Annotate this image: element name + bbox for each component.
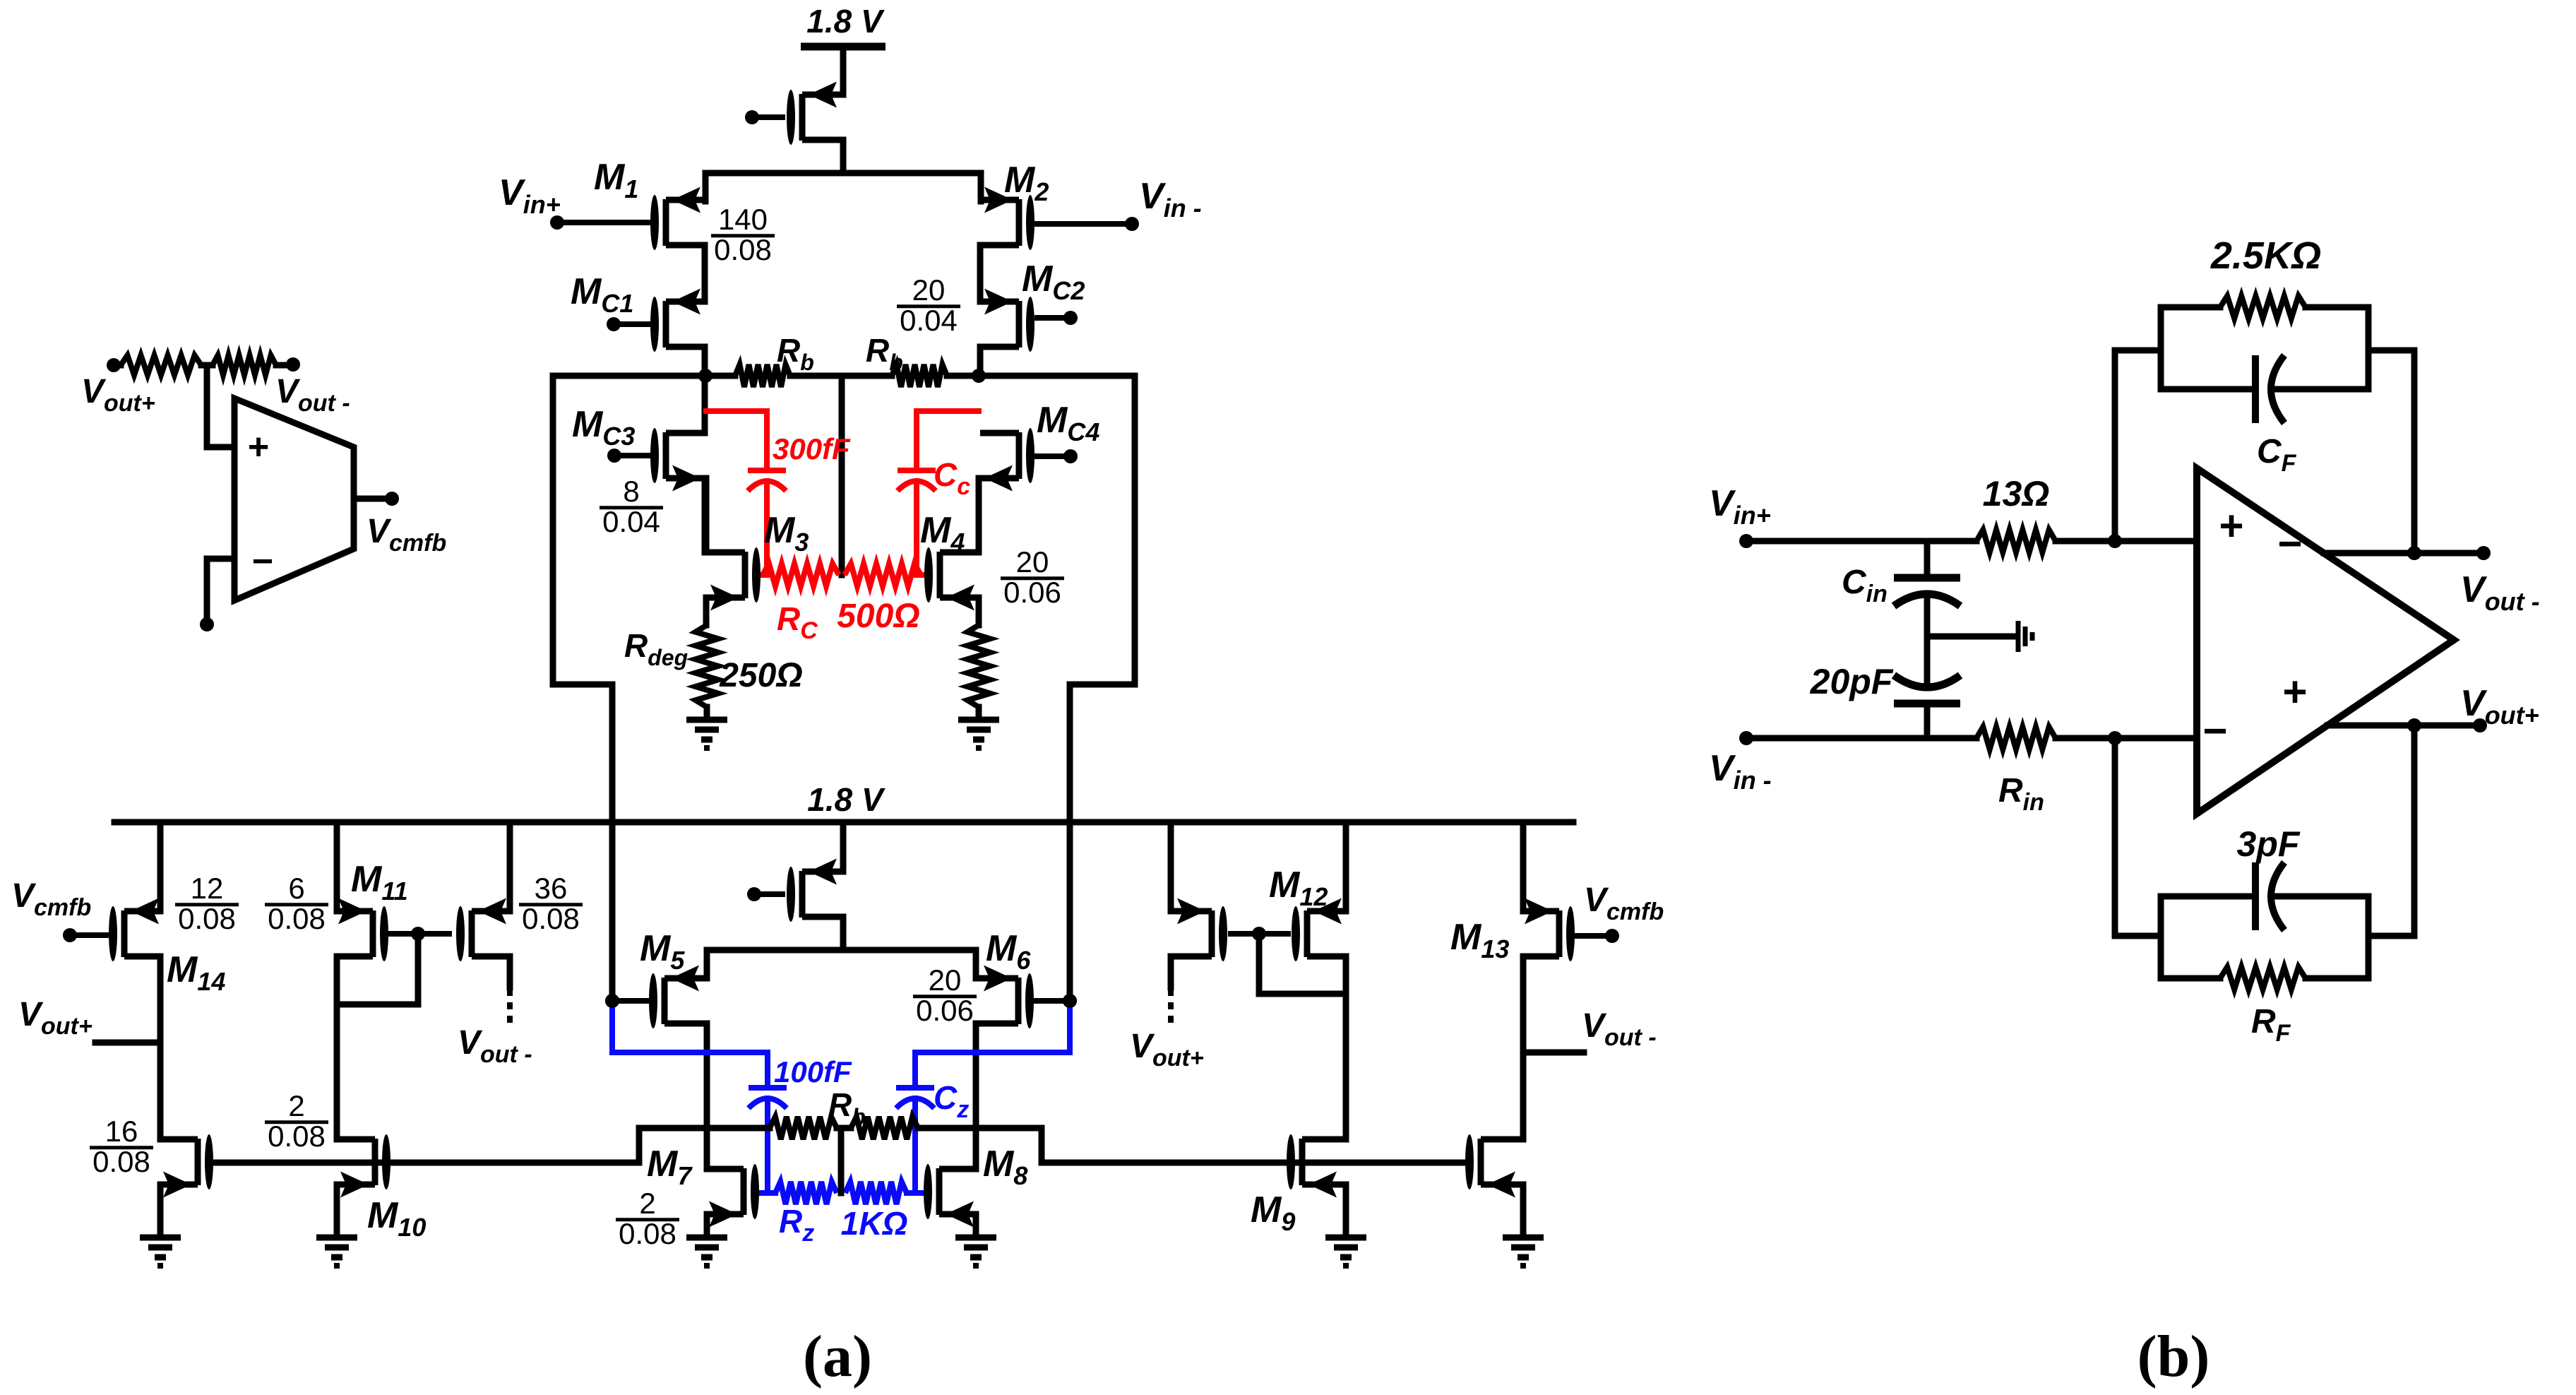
transistor current source (top) xyxy=(787,82,843,146)
label Vout- (M13) xyxy=(1582,1007,1657,1051)
svg-text:13Ω: 13Ω xyxy=(1983,474,2050,514)
label Vout- (b) xyxy=(2460,569,2540,616)
wire xyxy=(840,917,847,950)
svg-text:100fF: 100fF xyxy=(774,1055,852,1088)
wire xyxy=(702,347,708,433)
wire Vout- stub xyxy=(1523,1050,1584,1056)
gate dot MC3 xyxy=(607,449,650,463)
label M12 xyxy=(1269,865,1328,911)
wire xyxy=(334,1185,340,1237)
label Vout+ (b) xyxy=(2460,683,2539,730)
transistor MC1 xyxy=(650,289,705,352)
ground (M7) xyxy=(686,1237,727,1266)
transistor M4 xyxy=(924,547,979,611)
label Rz xyxy=(779,1203,814,1247)
svg-text:0.08: 0.08 xyxy=(522,902,580,935)
resistor Rb (bottom left) xyxy=(770,1117,837,1139)
capacitor 20pF xyxy=(1894,636,1960,738)
svg-text:0.08: 0.08 xyxy=(93,1145,150,1178)
gate dot MC2 xyxy=(1034,311,1078,325)
label M13 xyxy=(1450,917,1509,963)
svg-text:8: 8 xyxy=(623,475,639,508)
svg-text:3pF: 3pF xyxy=(2237,824,2301,864)
svg-text:20: 20 xyxy=(1016,545,1049,578)
svg-text:0.08: 0.08 xyxy=(714,233,772,266)
resistor 2.5Kohm xyxy=(2161,296,2368,319)
wire xyxy=(1343,1185,1349,1237)
svg-text:0.04: 0.04 xyxy=(900,304,958,337)
wire xyxy=(702,478,708,552)
label 2/0.08 (M7) xyxy=(616,1187,679,1250)
gate Vcmfb terminal (M14) xyxy=(63,928,109,942)
wire top bus xyxy=(705,173,981,201)
label 300fF xyxy=(773,432,851,465)
transistor M9 xyxy=(1287,1134,1346,1198)
svg-text:20pF: 20pF xyxy=(1810,662,1894,701)
wire gate bus right xyxy=(976,1128,1469,1163)
svg-text:0.08: 0.08 xyxy=(619,1217,676,1250)
wire left box xyxy=(553,376,705,1001)
label Vout+ (M14) xyxy=(18,996,93,1040)
label 6/0.08 xyxy=(265,872,328,935)
resistor RF xyxy=(2161,967,2368,990)
terminal dot xyxy=(2476,546,2491,560)
ground (M10) xyxy=(316,1237,357,1266)
svg-text:0.08: 0.08 xyxy=(268,902,326,935)
transistor M11b (36/0.08) xyxy=(456,898,509,962)
svg-text:0.08: 0.08 xyxy=(178,902,236,935)
resistor Rdeg (right) xyxy=(967,625,990,707)
gate terminal dot xyxy=(745,110,785,124)
power supply 1.8 V rail (top) xyxy=(801,3,885,47)
wire xyxy=(1924,541,1931,574)
resistor cmfb left xyxy=(121,355,201,375)
label Rdeg xyxy=(624,627,688,670)
label MC4 xyxy=(1037,400,1099,446)
wire loop right col b xyxy=(2366,896,2372,978)
svg-text:1.8 V: 1.8 V xyxy=(807,781,885,818)
label (b) xyxy=(2137,1324,2210,1389)
output wire Vcmfb xyxy=(354,496,389,502)
label (a) xyxy=(803,1324,872,1389)
wire xyxy=(976,598,982,625)
terminal dot Vout+ (cmfb) xyxy=(107,358,121,372)
label MC1 xyxy=(571,271,633,318)
wire xyxy=(973,1214,979,1237)
input Vin+ terminal xyxy=(550,215,650,230)
ground (cin mid) xyxy=(2018,621,2032,652)
resistor cmfb right xyxy=(213,355,276,375)
input terminal Vin- (b) xyxy=(1739,731,1976,745)
wire loop right col xyxy=(2366,307,2372,389)
gate Vcmfb terminal (M13) xyxy=(1570,929,1619,943)
gate node M11 xyxy=(383,927,452,941)
node M5 gate xyxy=(605,994,649,1008)
transistor M16 (16/0.08) xyxy=(160,1134,213,1198)
svg-text:(b): (b) xyxy=(2137,1324,2210,1389)
node dot (M5 gate over blue) xyxy=(605,994,619,1008)
input terminal Vin+ (b) xyxy=(1739,534,1976,548)
op-amp cmfb (trapezoid) xyxy=(234,398,354,600)
transistor M11 xyxy=(337,898,388,962)
wire diode M12 xyxy=(1259,934,1346,994)
wire xyxy=(114,362,121,369)
resistor 1Kohm (blue) xyxy=(845,1182,922,1204)
label M10 xyxy=(367,1195,426,1242)
svg-text:+: + xyxy=(248,427,269,468)
label Vcmfb (right) xyxy=(1584,881,1664,925)
wire Vout+ (b) xyxy=(2327,723,2480,729)
label 12/0.08 xyxy=(175,872,239,935)
node A (left cascode node) xyxy=(698,369,712,383)
wire xyxy=(507,822,513,911)
wire xyxy=(840,47,847,95)
wire xyxy=(704,1214,710,1237)
label 20pF xyxy=(1810,662,1894,701)
wire xyxy=(2115,350,2161,541)
label 250 xyxy=(719,657,803,694)
wire blue right xyxy=(915,1001,1070,1085)
label Vin- (b) xyxy=(1709,748,1772,795)
resistor Rdeg (left) 250ohm xyxy=(696,625,718,707)
label 1Kohm xyxy=(841,1205,908,1242)
wire xyxy=(1520,822,1527,911)
wire xyxy=(1343,956,1349,1139)
terminal dot Vcmfb xyxy=(385,492,399,506)
wire xyxy=(1520,1185,1527,1237)
wire xyxy=(840,822,847,872)
wire dashed Vout+ xyxy=(1168,989,1174,1024)
terminal dot Vout- (cmfb) xyxy=(286,357,300,372)
label M11 xyxy=(351,859,408,906)
wire ground stub xyxy=(1927,634,2017,640)
svg-text:36: 36 xyxy=(535,872,568,905)
svg-text:(a): (a) xyxy=(803,1324,872,1389)
wire xyxy=(840,47,847,95)
terminal dot (minus input) xyxy=(200,617,214,631)
svg-text:0.04: 0.04 xyxy=(602,505,660,538)
capacitor Cz (blue) xyxy=(896,1088,934,1193)
gate node M12 xyxy=(1228,927,1291,941)
node plus input xyxy=(2108,534,2122,548)
label Vcmfb xyxy=(366,513,446,557)
svg-text:2: 2 xyxy=(639,1187,655,1220)
label M4 xyxy=(920,510,965,557)
wire xyxy=(157,956,164,1139)
capacitor 3pF xyxy=(2161,862,2368,930)
label Vin+ xyxy=(499,172,561,219)
resistor 13ohm xyxy=(1976,530,2056,552)
label 500 xyxy=(837,598,920,635)
wire xyxy=(973,1023,979,1169)
ground (M9) xyxy=(1325,1237,1366,1266)
svg-text:−: − xyxy=(252,541,273,582)
transistor M8 xyxy=(924,1164,978,1228)
wire Vout- (b) xyxy=(2324,550,2483,557)
label Vout+ (M12a) xyxy=(1130,1028,1204,1072)
wire bottom Rb row xyxy=(707,1125,976,1132)
wire xyxy=(1343,822,1349,911)
wire xyxy=(976,707,982,720)
wire gate bus left xyxy=(210,1128,707,1163)
ground (left Rdeg) xyxy=(686,720,727,748)
input Vin- terminal xyxy=(1034,217,1139,231)
wire M5-M6 top bus xyxy=(707,950,976,978)
svg-text:−: − xyxy=(2202,707,2227,754)
label CF xyxy=(2257,433,2297,477)
wire xyxy=(507,956,513,987)
label 100fF xyxy=(774,1055,852,1088)
svg-text:250Ω: 250Ω xyxy=(719,657,803,694)
svg-text:−: − xyxy=(2277,520,2302,567)
label Cc xyxy=(934,456,970,500)
capacitor Cc (red) xyxy=(898,411,979,575)
gate dot MC4 xyxy=(1034,449,1078,463)
capacitor 100fF (blue) xyxy=(749,1088,787,1193)
transistor M1 xyxy=(650,187,705,251)
svg-text:+: + xyxy=(2219,502,2243,550)
resistor Rz (blue) xyxy=(761,1182,837,1204)
wire xyxy=(976,478,982,552)
label M1 xyxy=(594,157,638,203)
label Rb bottom xyxy=(828,1086,866,1129)
wire xyxy=(1168,956,1174,987)
ground (M16) xyxy=(140,1237,181,1266)
label Cin xyxy=(1842,564,1888,607)
svg-text:12: 12 xyxy=(191,872,224,905)
gate terminal dot xyxy=(747,887,785,901)
wire plus input xyxy=(207,365,234,447)
svg-text:0.06: 0.06 xyxy=(1003,576,1061,609)
wire xyxy=(1168,822,1174,911)
svg-text:1.8 V: 1.8 V xyxy=(806,3,885,40)
label Cz xyxy=(934,1079,969,1123)
label 3pF xyxy=(2237,824,2301,864)
resistor Rb (right) xyxy=(892,364,947,387)
wire xyxy=(2368,350,2414,553)
capacitor Cin xyxy=(1894,578,1960,636)
gate dot MC1 xyxy=(607,317,650,331)
wire xyxy=(157,822,164,911)
label M8 xyxy=(983,1144,1027,1190)
wire xyxy=(334,822,340,911)
transistor M12 xyxy=(1292,898,1346,962)
label Rin xyxy=(1998,772,2044,816)
label M5 xyxy=(640,928,685,975)
op-amp U1 (triangle) xyxy=(2197,468,2454,814)
label 8/0.04 xyxy=(600,475,663,538)
wire xyxy=(2056,538,2197,545)
label Rb left xyxy=(777,332,814,375)
svg-text:0.08: 0.08 xyxy=(268,1120,326,1153)
svg-text:2: 2 xyxy=(288,1089,304,1122)
resistor 500ohm (red) xyxy=(845,564,926,586)
svg-text:500Ω: 500Ω xyxy=(837,598,920,635)
wire xyxy=(704,707,710,720)
transistor M6 xyxy=(976,966,1034,1029)
label Vout- (cmfb) xyxy=(275,373,350,417)
transistor MC3 xyxy=(650,428,705,492)
wire xyxy=(334,956,340,1139)
wire xyxy=(703,598,710,625)
transistor M13N xyxy=(1465,1134,1523,1198)
wire loop left col b xyxy=(2158,896,2164,978)
capacitor 300fF (red) xyxy=(706,411,786,575)
resistor Rb (bottom right) xyxy=(851,1117,918,1139)
transistor M5 xyxy=(649,966,707,1029)
transistor M14 xyxy=(109,898,160,962)
resistor Rc (red) xyxy=(759,564,839,586)
label Rc xyxy=(777,600,818,644)
label Vout- (M11b) xyxy=(458,1024,532,1068)
label RF xyxy=(2251,1003,2291,1047)
svg-text:6: 6 xyxy=(288,872,304,905)
label 2/0.08 (M10) xyxy=(265,1089,328,1153)
svg-text:300fF: 300fF xyxy=(773,432,851,465)
wire xyxy=(2368,725,2414,936)
label Vin+ (b) xyxy=(1709,483,1771,530)
transistor M2 xyxy=(980,187,1034,251)
wire minus input xyxy=(207,559,234,623)
wire blue left xyxy=(612,1001,768,1085)
wire Rb row xyxy=(705,373,979,379)
wire xyxy=(977,347,984,376)
power rail 1.8V (bottom) xyxy=(114,781,1573,822)
svg-text:1KΩ: 1KΩ xyxy=(841,1205,908,1242)
terminal dot xyxy=(2473,718,2487,732)
node M6 gate xyxy=(1034,994,1077,1008)
wire diode M11 xyxy=(337,934,418,1004)
label Rb right xyxy=(866,332,903,375)
svg-text:2.5KΩ: 2.5KΩ xyxy=(2210,235,2321,277)
wire loop left col xyxy=(2158,307,2164,389)
label 140/0.08 xyxy=(711,203,775,266)
wire xyxy=(2056,735,2197,742)
transistor M13 xyxy=(1523,898,1575,962)
transistor M7 xyxy=(705,1164,759,1228)
node dot (M6 gate over blue) xyxy=(1063,994,1077,1008)
capacitor CF xyxy=(2161,355,2368,423)
svg-text:20: 20 xyxy=(912,273,946,307)
wire center tap bottom xyxy=(838,1128,845,1193)
wire xyxy=(276,362,290,369)
resistor Rb (left) xyxy=(735,364,790,387)
node xyxy=(2407,718,2421,732)
wire right box xyxy=(979,376,1135,1001)
node B (right cascode node) xyxy=(972,369,986,383)
ground (M8) xyxy=(955,1237,996,1266)
label M9 xyxy=(1251,1189,1295,1236)
transistor MC2 xyxy=(980,289,1034,352)
node xyxy=(2407,546,2421,560)
wire xyxy=(704,1023,710,1169)
wire xyxy=(201,362,213,369)
resistor Rin xyxy=(1976,727,2056,749)
wire dashed Vout- xyxy=(507,989,513,1024)
label MC2 xyxy=(1022,259,1085,305)
label Vout+ (cmfb) xyxy=(81,373,155,417)
svg-text:16: 16 xyxy=(105,1115,138,1148)
svg-text:0.06: 0.06 xyxy=(916,994,974,1027)
wire xyxy=(702,245,708,302)
ground (M13N) xyxy=(1503,1237,1544,1266)
transistor M12a xyxy=(1171,898,1227,962)
wire xyxy=(1520,956,1527,1139)
wire xyxy=(157,1185,164,1237)
wire Vout+ stub xyxy=(95,1040,160,1046)
label M7 xyxy=(647,1144,693,1190)
transistor MC4 xyxy=(980,428,1034,492)
wire xyxy=(840,140,847,173)
transistor current source (bottom) xyxy=(787,859,843,922)
label M6 xyxy=(986,928,1031,975)
label 13ohm xyxy=(1983,474,2050,514)
label 2.5Kohm xyxy=(2210,235,2321,277)
label 36/0.08 xyxy=(519,872,583,935)
wire xyxy=(977,245,984,302)
label 20/0.06 (M6) xyxy=(913,963,977,1027)
label Vcmfb (left) xyxy=(11,877,91,921)
svg-text:20: 20 xyxy=(929,963,962,997)
label M3 xyxy=(764,510,809,557)
label MC3 xyxy=(572,404,635,451)
svg-text:+: + xyxy=(2282,668,2307,716)
wire center tap xyxy=(839,376,845,575)
label Vin - xyxy=(1139,176,1202,222)
ground (right Rdeg) xyxy=(958,720,999,748)
label 20/0.06 (M4) xyxy=(1001,545,1064,609)
wire xyxy=(703,478,710,552)
label 20/0.04 xyxy=(897,273,960,337)
label M2 xyxy=(1004,160,1049,206)
transistor M10 xyxy=(338,1134,390,1198)
label 16/0.08 xyxy=(90,1115,153,1178)
label M14 xyxy=(167,949,225,996)
node minus input xyxy=(2108,731,2122,745)
transistor M3 xyxy=(706,547,761,611)
svg-text:140: 140 xyxy=(718,203,768,236)
wire xyxy=(2115,738,2161,936)
